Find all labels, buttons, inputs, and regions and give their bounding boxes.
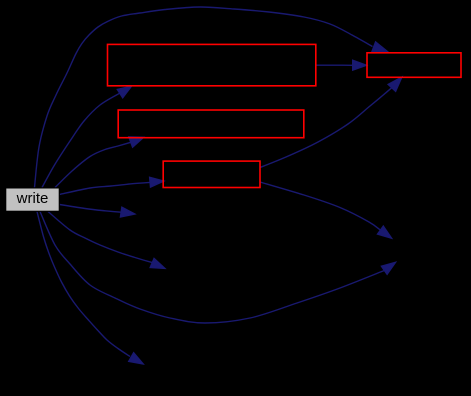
edge G bbox=[40, 212, 384, 324]
edge C bbox=[55, 142, 131, 187]
node boxTR (red, truncated) bbox=[367, 53, 461, 78]
svg-text:write: write bbox=[16, 190, 49, 207]
node box1 (red, truncated) bbox=[108, 44, 316, 85]
edge K bbox=[260, 182, 380, 230]
edge E bbox=[60, 205, 122, 213]
node box3 (red, truncated) bbox=[163, 161, 260, 187]
node write (current, grey) bbox=[6, 188, 60, 211]
edge B bbox=[42, 93, 120, 187]
edge J bbox=[260, 88, 392, 168]
edge H bbox=[37, 212, 130, 357]
edge D bbox=[60, 182, 151, 194]
edge A bbox=[35, 7, 373, 188]
edge F bbox=[48, 212, 152, 263]
edge I bbox=[316, 64, 353, 66]
node box2 (red, truncated) bbox=[118, 110, 304, 138]
